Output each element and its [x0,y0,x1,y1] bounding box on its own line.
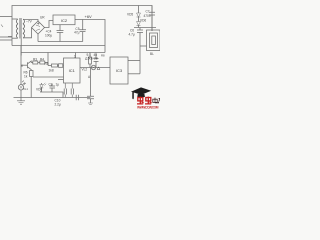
svg-text:C8: C8 [94,57,98,61]
svg-text:VD5: VD5 [127,13,133,17]
svg-text:R8: R8 [101,54,105,58]
svg-text:BL: BL [150,52,154,56]
svg-text:UR: UR [40,16,45,20]
svg-text:100μ: 100μ [45,33,52,37]
svg-text:4700: 4700 [144,14,151,18]
svg-text:R3: R3 [33,58,37,62]
svg-text:C9: C9 [49,83,53,87]
svg-text:IC3: IC3 [116,68,123,73]
svg-text:1k8: 1k8 [49,69,54,73]
svg-text:IC2: IC2 [61,18,68,23]
svg-text:1k: 1k [24,75,28,79]
svg-text:VD6: VD6 [140,19,146,23]
svg-text:2.2μ: 2.2μ [55,103,61,107]
svg-text:R5: R5 [45,62,49,66]
svg-text:VL2: VL2 [82,68,88,72]
svg-text:4.7μ: 4.7μ [129,33,135,37]
svg-text:WWW.CCW.COM: WWW.CCW.COM [137,106,159,110]
svg-text:+6V: +6V [85,14,93,19]
svg-text:1μ: 1μ [56,83,60,87]
svg-text:C7: C7 [146,10,150,14]
svg-text:150k: 150k [86,57,93,61]
svg-text:L: L [85,57,87,61]
svg-text:~7V: ~7V [26,20,33,24]
svg-text:1: 1 [74,55,76,59]
svg-text:VL1: VL1 [23,87,28,91]
svg-text:IC1: IC1 [69,68,76,73]
svg-text:VD8: VD8 [36,88,42,92]
svg-text:47μ: 47μ [74,31,80,35]
